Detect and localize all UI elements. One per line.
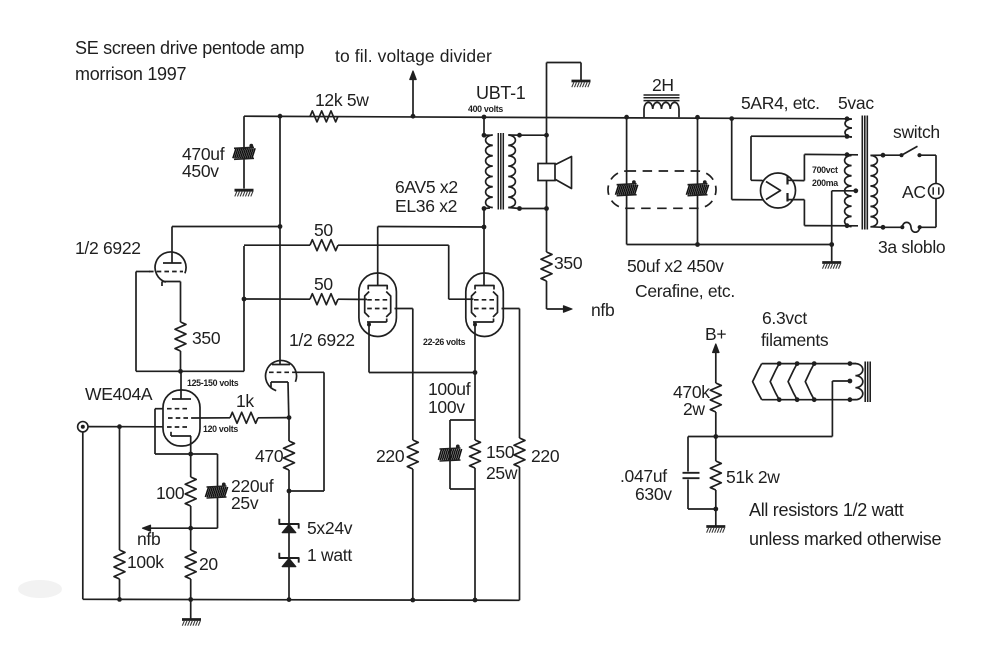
svg-text:50: 50 [314, 220, 333, 240]
svg-text:22-26 volts: 22-26 volts [423, 337, 466, 347]
svg-text:350: 350 [554, 253, 583, 273]
svg-text:Cerafine, etc.: Cerafine, etc. [635, 281, 735, 301]
svg-text:20: 20 [199, 554, 218, 574]
svg-text:3a sloblo: 3a sloblo [878, 237, 945, 257]
svg-text:150: 150 [486, 442, 515, 462]
svg-text:morrison 1997: morrison 1997 [75, 64, 186, 84]
svg-text:.047uf: .047uf [620, 466, 667, 486]
svg-text:B+: B+ [705, 324, 726, 344]
svg-text:630v: 630v [635, 484, 672, 504]
svg-text:470: 470 [255, 446, 284, 466]
svg-text:100v: 100v [428, 397, 465, 417]
svg-text:filaments: filaments [761, 330, 829, 350]
svg-text:350: 350 [192, 328, 221, 348]
svg-text:450v: 450v [182, 161, 219, 181]
svg-text:2H: 2H [652, 75, 674, 95]
svg-text:6AV5 x2: 6AV5 x2 [395, 177, 458, 197]
svg-text:1k: 1k [236, 391, 254, 411]
svg-text:UBT-1: UBT-1 [476, 83, 526, 103]
svg-text:2w: 2w [683, 399, 705, 419]
svg-text:120 volts: 120 volts [203, 424, 238, 434]
svg-text:100: 100 [156, 483, 185, 503]
svg-text:25v: 25v [231, 493, 259, 513]
svg-text:AC: AC [902, 182, 926, 202]
svg-text:1/2 6922: 1/2 6922 [75, 238, 141, 258]
svg-text:100k: 100k [127, 552, 164, 572]
svg-text:All resistors 1/2 watt: All resistors 1/2 watt [749, 500, 904, 520]
svg-text:to fil. voltage divider: to fil. voltage divider [335, 46, 492, 66]
svg-text:25w: 25w [486, 463, 518, 483]
svg-text:50: 50 [314, 274, 333, 294]
svg-text:12k 5w: 12k 5w [315, 90, 369, 110]
svg-text:100uf: 100uf [428, 379, 471, 399]
svg-text:5AR4, etc.: 5AR4, etc. [741, 93, 820, 113]
svg-text:51k 2w: 51k 2w [726, 467, 780, 487]
svg-text:1/2 6922: 1/2 6922 [289, 330, 355, 350]
svg-text:6.3vct: 6.3vct [762, 308, 807, 328]
svg-text:400 volts: 400 volts [468, 104, 503, 114]
svg-text:EL36 x2: EL36 x2 [395, 196, 457, 216]
svg-text:nfb: nfb [591, 300, 614, 320]
svg-text:50uf x2 450v: 50uf x2 450v [627, 256, 724, 276]
svg-text:5x24v: 5x24v [307, 518, 353, 538]
svg-text:200ma: 200ma [812, 178, 838, 188]
svg-text:220: 220 [531, 446, 560, 466]
svg-text:SE screen drive pentode amp: SE screen drive pentode amp [75, 38, 304, 58]
svg-text:switch: switch [893, 122, 940, 142]
svg-text:unless marked otherwise: unless marked otherwise [749, 529, 941, 549]
svg-text:125-150 volts: 125-150 volts [187, 378, 239, 388]
svg-text:1 watt: 1 watt [307, 545, 352, 565]
svg-text:5vac: 5vac [838, 93, 874, 113]
svg-text:700vct: 700vct [812, 165, 838, 175]
svg-text:nfb: nfb [137, 529, 160, 549]
svg-text:WE404A: WE404A [85, 384, 153, 404]
svg-text:220: 220 [376, 446, 405, 466]
